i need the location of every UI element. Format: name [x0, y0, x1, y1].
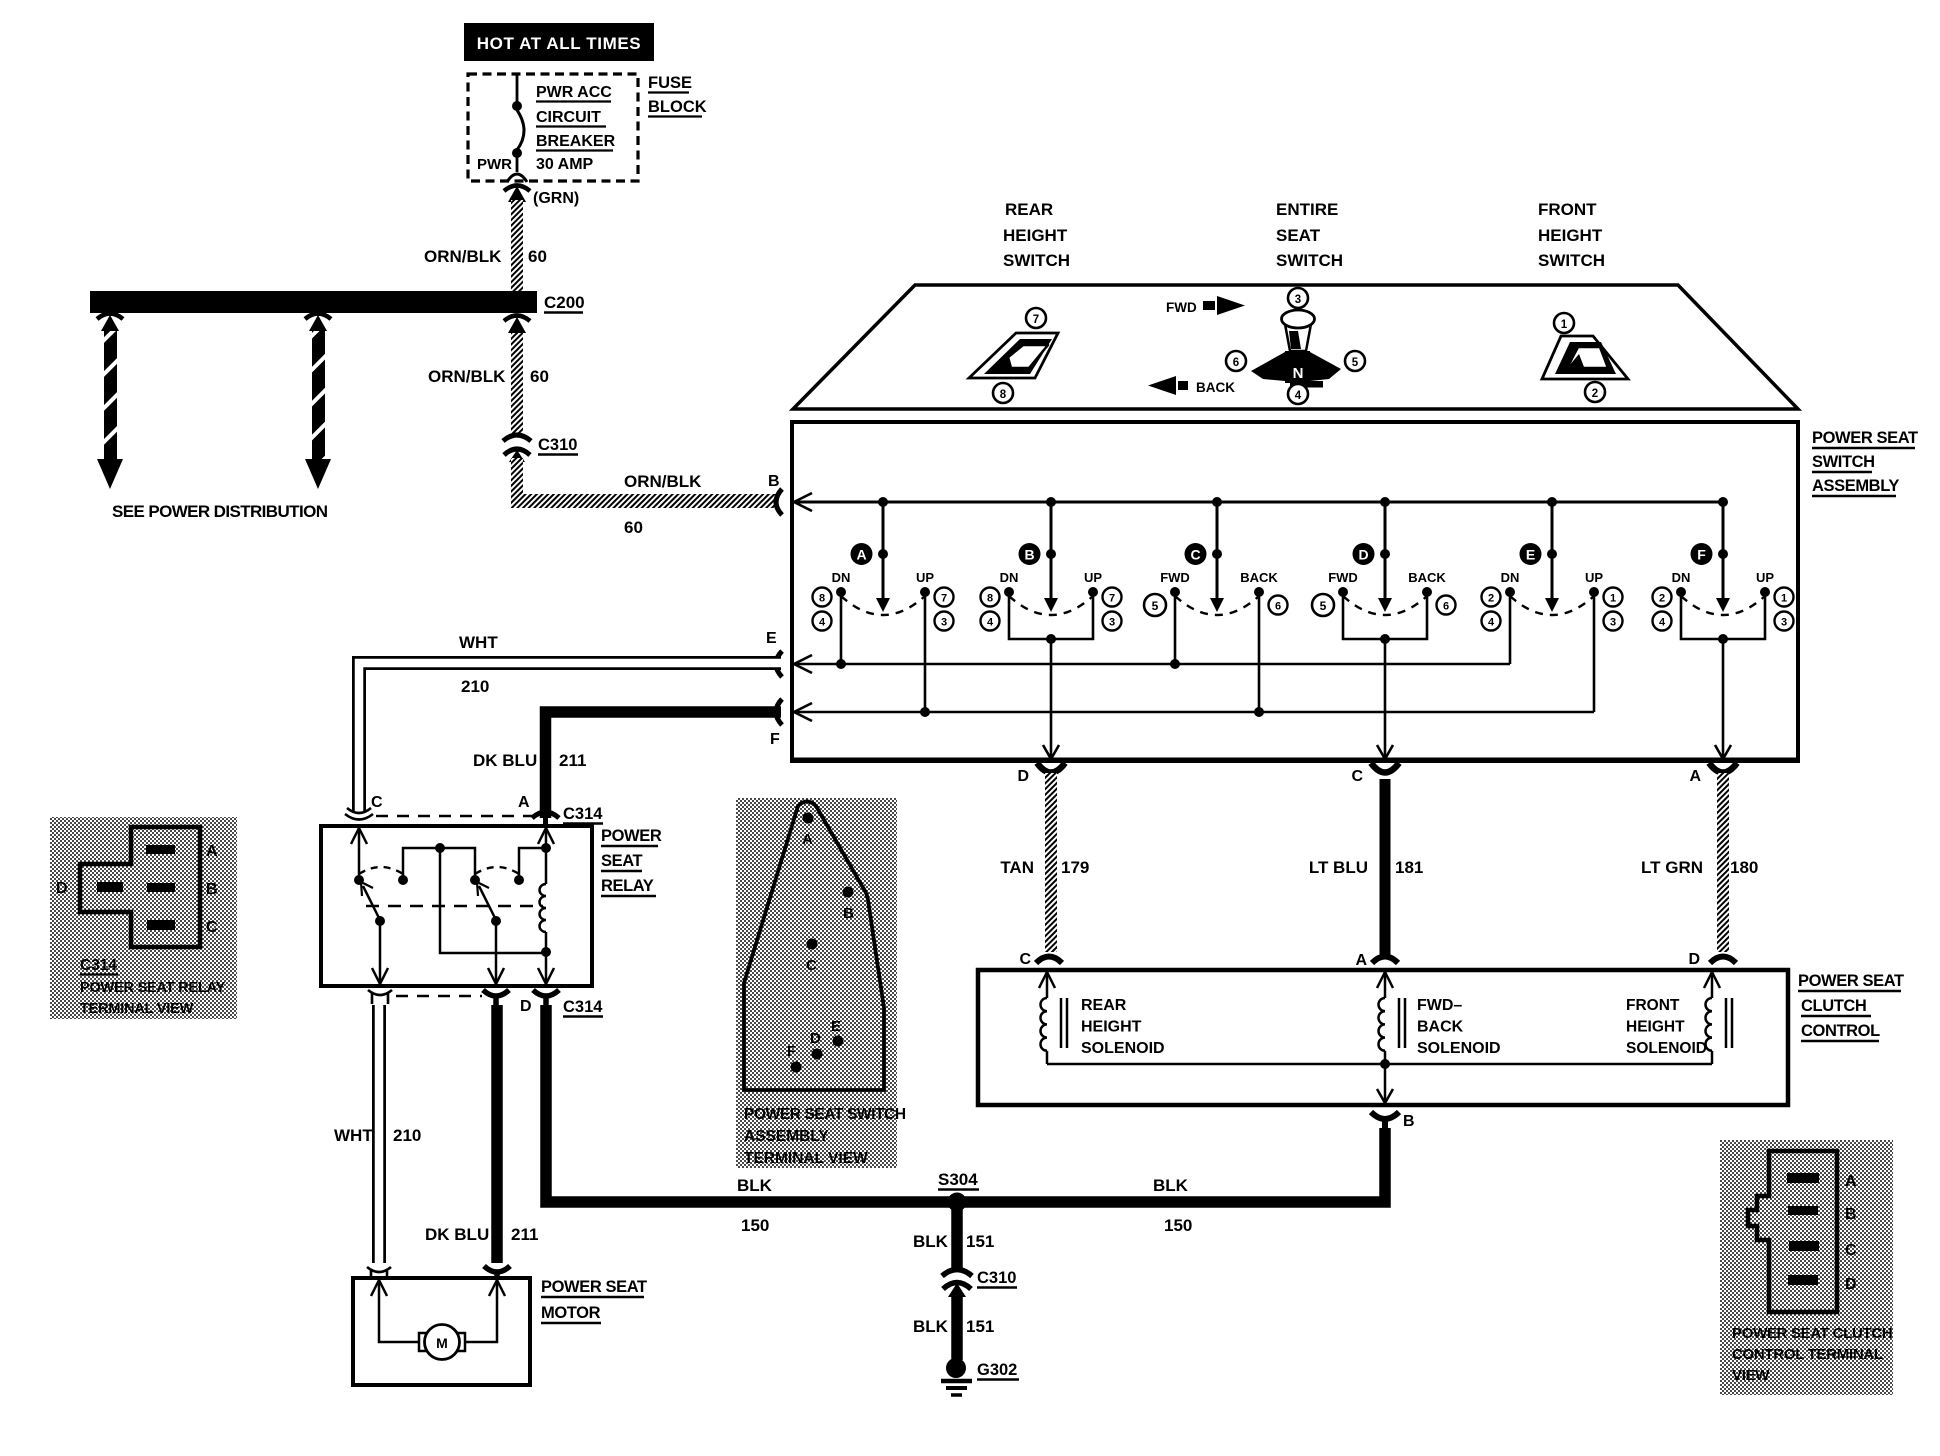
svg-text:MOTOR: MOTOR: [541, 1304, 601, 1322]
svg-text:30 AMP: 30 AMP: [536, 156, 594, 173]
svg-text:POWER: POWER: [601, 827, 662, 845]
wire label ORN/BLK 60: [428, 367, 549, 386]
svg-text:60: 60: [624, 518, 643, 537]
svg-text:C310: C310: [538, 436, 577, 454]
svg-text:CLUTCH: CLUTCH: [1801, 997, 1866, 1015]
front height rocker switch: [1542, 336, 1628, 379]
svg-text:POWER SEAT: POWER SEAT: [1812, 429, 1918, 447]
connector to motor (WHT): [367, 1267, 391, 1279]
svg-text:BACK: BACK: [1408, 570, 1446, 585]
label POWER SEAT MOTOR: [541, 1278, 647, 1323]
svg-text:4: 4: [819, 617, 826, 629]
svg-text:HEIGHT: HEIGHT: [1081, 1019, 1142, 1036]
wire label DK BLU 211: [425, 1225, 538, 1244]
pin 2: [1585, 382, 1605, 402]
svg-text:1: 1: [1781, 593, 1787, 605]
svg-text:C200: C200: [544, 293, 585, 312]
svg-text:POWER SEAT CLUTCH: POWER SEAT CLUTCH: [1732, 1325, 1892, 1342]
svg-text:5: 5: [1352, 357, 1359, 369]
svg-text:CIRCUIT: CIRCUIT: [536, 109, 601, 126]
svg-text:SEE POWER DISTRIBUTION: SEE POWER DISTRIBUTION: [112, 502, 328, 521]
svg-text:C: C: [371, 794, 383, 811]
svg-text:POWER SEAT: POWER SEAT: [541, 1278, 647, 1296]
svg-text:8: 8: [819, 593, 825, 605]
switch section F: [1653, 497, 1794, 759]
svg-text:WHT: WHT: [459, 633, 498, 652]
C314 relay terminal view: [50, 817, 237, 1019]
svg-text:BLK: BLK: [1153, 1176, 1189, 1195]
svg-text:HOT AT ALL TIMES: HOT AT ALL TIMES: [477, 34, 641, 53]
label FUSE BLOCK: [648, 74, 707, 117]
svg-text:A: A: [518, 794, 530, 811]
svg-text:TERMINAL VIEW: TERMINAL VIEW: [744, 1150, 868, 1167]
svg-text:CONTROL TERMINAL: CONTROL TERMINAL: [1732, 1346, 1883, 1363]
pin 6: [1226, 351, 1246, 371]
svg-text:M: M: [436, 1335, 448, 1351]
splice bus C200: [90, 291, 537, 313]
svg-text:60: 60: [530, 367, 549, 386]
svg-text:7: 7: [941, 593, 947, 605]
switch section B: [981, 497, 1122, 759]
svg-text:3: 3: [941, 617, 947, 629]
svg-text:BLK: BLK: [913, 1232, 949, 1251]
svg-text:FWD: FWD: [1160, 570, 1190, 585]
connector label C200: [544, 293, 585, 313]
svg-text:FWD: FWD: [1328, 570, 1358, 585]
relay terminal C lead: [351, 828, 367, 879]
entire seat joystick: [1251, 310, 1341, 388]
connector C314 (relay top): [345, 794, 603, 824]
svg-text:151: 151: [966, 1317, 994, 1336]
fwd-back solenoid: [1377, 972, 1501, 1064]
terminal C connector: [1351, 763, 1399, 785]
wire label ORN/BLK 60: [624, 472, 702, 537]
svg-text:7: 7: [1033, 314, 1039, 326]
svg-text:DN: DN: [832, 570, 851, 585]
svg-text:211: 211: [511, 1225, 538, 1244]
pin 8: [993, 383, 1013, 403]
svg-text:C314: C314: [563, 998, 603, 1016]
wire ORN/BLK 60 (C310 to switch assembly B): [511, 458, 777, 508]
wire to power distribution (left drop): [97, 314, 123, 490]
svg-text:210: 210: [393, 1126, 421, 1145]
svg-text:150: 150: [741, 1216, 769, 1235]
svg-text:WHT: WHT: [334, 1126, 373, 1145]
relay terminal A lead and coil: [538, 828, 554, 957]
relay switch 2: [470, 867, 524, 926]
svg-text:UP: UP: [1585, 570, 1603, 585]
svg-text:D: D: [56, 880, 68, 897]
svg-text:C: C: [1845, 1242, 1857, 1259]
switch panel (3D face): [793, 285, 1798, 409]
svg-text:BLOCK: BLOCK: [648, 98, 707, 116]
svg-text:C: C: [1351, 768, 1363, 785]
power seat motor box: [353, 1278, 530, 1385]
svg-text:6: 6: [1443, 601, 1449, 613]
wire to power distribution (middle drop): [305, 314, 331, 490]
svg-text:BACK: BACK: [1196, 380, 1235, 395]
svg-text:D: D: [520, 998, 532, 1015]
splice S304: [938, 1170, 979, 1212]
svg-text:FRONT: FRONT: [1538, 200, 1597, 219]
svg-text:181: 181: [1395, 858, 1423, 877]
rear height rocker switch: [969, 333, 1058, 378]
svg-text:C314: C314: [563, 805, 603, 823]
svg-text:SWITCH: SWITCH: [1538, 251, 1605, 270]
ground G302: [941, 1358, 1019, 1395]
wire BLK 151 (C310 to G302): [951, 1293, 963, 1360]
svg-text:G302: G302: [977, 1361, 1017, 1379]
wire BLK 150 (relay D to S304 to clutch B): [546, 1005, 1385, 1202]
connector C310 (ground leg): [942, 1269, 1017, 1297]
svg-text:HEIGHT: HEIGHT: [1538, 226, 1603, 245]
svg-text:C: C: [1190, 547, 1200, 563]
svg-text:F: F: [1697, 547, 1706, 563]
svg-text:POWER SEAT SWITCH: POWER SEAT SWITCH: [744, 1106, 906, 1123]
wire DK BLU 211 (relay to motor): [491, 1005, 503, 1263]
terminal F connector: [770, 699, 782, 748]
svg-text:N: N: [1293, 365, 1304, 382]
svg-text:E: E: [766, 630, 777, 647]
svg-text:UP: UP: [1756, 570, 1774, 585]
svg-text:D: D: [810, 1030, 821, 1047]
svg-text:DN: DN: [1672, 570, 1691, 585]
svg-text:C314: C314: [80, 957, 117, 974]
svg-text:150: 150: [1164, 1216, 1192, 1235]
svg-text:E: E: [831, 1018, 841, 1035]
svg-text:ORN/BLK: ORN/BLK: [428, 367, 506, 386]
svg-text:C310: C310: [977, 1269, 1016, 1287]
svg-text:B: B: [843, 905, 854, 922]
wire label ORN/BLK 60: [424, 247, 547, 266]
svg-text:ENTIRE: ENTIRE: [1276, 200, 1338, 219]
relay output leads: [372, 921, 554, 984]
svg-text:A: A: [1689, 768, 1701, 785]
svg-text:FUSE: FUSE: [648, 74, 692, 92]
motor M: [371, 1280, 505, 1360]
svg-text:B: B: [1024, 547, 1034, 563]
svg-text:ASSEMBLY: ASSEMBLY: [1812, 477, 1899, 495]
wire label WHT 210: [334, 1126, 421, 1145]
svg-text:PWR ACC: PWR ACC: [536, 84, 612, 101]
svg-text:LT GRN: LT GRN: [1641, 858, 1703, 877]
label ENTIRE SEAT SWITCH: [1276, 200, 1343, 270]
svg-text:5: 5: [1152, 599, 1159, 613]
svg-text:D: D: [1017, 768, 1029, 785]
svg-text:S304: S304: [938, 1170, 978, 1189]
svg-text:3: 3: [1295, 294, 1301, 306]
svg-text:SEAT: SEAT: [1276, 226, 1321, 245]
connector C314 (relay bottom): [368, 990, 603, 1017]
svg-text:SOLENOID: SOLENOID: [1081, 1040, 1165, 1057]
value label PWR ACC CIRCUIT BREAKER 30 AMP: [536, 84, 616, 173]
svg-text:C: C: [206, 919, 218, 936]
svg-text:UP: UP: [1084, 570, 1102, 585]
pin 4: [1288, 384, 1308, 404]
power seat relay box: [321, 826, 592, 986]
svg-text:HEIGHT: HEIGHT: [1003, 226, 1068, 245]
svg-text:A: A: [1845, 1173, 1857, 1190]
fuse block dashed box: [468, 74, 638, 181]
wire label WHT 210: [459, 633, 498, 696]
pin 7: [1026, 308, 1046, 328]
power seat clutch control terminal view: [1720, 1140, 1893, 1395]
svg-text:SOLENOID: SOLENOID: [1417, 1040, 1501, 1057]
svg-text:SWITCH: SWITCH: [1276, 251, 1343, 270]
svg-text:DN: DN: [1000, 570, 1019, 585]
svg-text:D: D: [1688, 951, 1700, 968]
pin 5: [1345, 351, 1365, 371]
svg-text:A: A: [802, 831, 813, 848]
svg-text:REAR: REAR: [1081, 997, 1127, 1014]
label POWER SEAT SWITCH ASSEMBLY: [1812, 429, 1918, 496]
svg-text:DK BLU: DK BLU: [425, 1225, 489, 1244]
wire LT GRN 180: [1717, 773, 1729, 952]
svg-text:6: 6: [1233, 357, 1239, 369]
svg-text:B: B: [206, 881, 218, 898]
label HOT AT ALL TIMES: [464, 23, 654, 61]
svg-text:B: B: [1403, 1113, 1415, 1130]
svg-text:TERMINAL VIEW: TERMINAL VIEW: [80, 1001, 194, 1017]
rear height solenoid: [1039, 972, 1165, 1064]
svg-text:LT BLU: LT BLU: [1309, 858, 1368, 877]
svg-text:A: A: [206, 843, 218, 860]
svg-text:HEIGHT: HEIGHT: [1626, 1019, 1685, 1036]
svg-text:B: B: [1845, 1206, 1857, 1223]
switch section D: [1312, 497, 1456, 759]
svg-text:VIEW: VIEW: [1732, 1367, 1770, 1384]
svg-text:(GRN): (GRN): [533, 190, 579, 207]
svg-text:ASSEMBLY: ASSEMBLY: [744, 1128, 829, 1145]
svg-text:60: 60: [528, 247, 547, 266]
svg-text:C: C: [806, 957, 817, 974]
label BACK arrow: [1148, 376, 1235, 395]
relay switch 1: [354, 867, 408, 926]
svg-text:F: F: [787, 1043, 796, 1060]
svg-text:E: E: [1526, 547, 1535, 563]
svg-text:BLK: BLK: [913, 1317, 949, 1336]
svg-text:BACK: BACK: [1240, 570, 1278, 585]
mechanical link (dashed): [366, 905, 543, 908]
circuit breaker PWR ACC 30 AMP: [507, 75, 527, 182]
label POWER SEAT CLUTCH CONTROL: [1798, 972, 1904, 1041]
svg-text:1: 1: [1561, 319, 1568, 331]
svg-text:A: A: [1355, 952, 1367, 969]
svg-text:8: 8: [987, 593, 993, 605]
wire solenoid common bus: [1047, 1059, 1712, 1103]
connector D (clutch): [1688, 951, 1736, 968]
svg-text:BACK: BACK: [1417, 1019, 1464, 1036]
terminal E connector: [766, 630, 782, 677]
wire WHT 210 (switch E to relay C): [359, 663, 781, 813]
connector C310: [503, 435, 531, 462]
svg-text:2: 2: [1659, 593, 1665, 605]
svg-text:179: 179: [1061, 858, 1089, 877]
svg-text:8: 8: [1000, 389, 1007, 401]
power seat switch assembly terminal view: [736, 798, 906, 1168]
svg-text:180: 180: [1730, 858, 1758, 877]
wire WHT 210 (relay to motor): [372, 1003, 386, 1263]
svg-text:4: 4: [987, 617, 994, 629]
front height solenoid: [1626, 972, 1732, 1064]
svg-text:3: 3: [1781, 617, 1787, 629]
svg-text:ORN/BLK: ORN/BLK: [424, 247, 502, 266]
svg-text:151: 151: [966, 1232, 994, 1251]
connector label C310: [538, 436, 578, 455]
wire label DK BLU 211: [473, 751, 586, 770]
svg-text:5: 5: [1320, 599, 1327, 613]
svg-text:DK BLU: DK BLU: [473, 751, 537, 770]
wire sw2 NC to coil feed: [519, 843, 551, 880]
wire ORN/BLK 60 (C200 to C310): [504, 316, 530, 434]
label FRONT HEIGHT SWITCH: [1538, 200, 1605, 270]
svg-text:SEAT: SEAT: [601, 852, 643, 870]
wire LT BLU 181: [1380, 779, 1391, 955]
svg-text:TAN: TAN: [1000, 858, 1034, 877]
svg-text:4: 4: [1488, 617, 1495, 629]
svg-text:2: 2: [1488, 593, 1494, 605]
svg-text:FWD: FWD: [1166, 300, 1197, 315]
wire BLK 151 (S304 to C310): [951, 1202, 963, 1268]
connector arrow into breaker: [504, 186, 530, 203]
svg-text:PWR: PWR: [477, 156, 512, 173]
terminal A connector: [1689, 763, 1737, 785]
svg-text:ORN/BLK: ORN/BLK: [624, 472, 702, 491]
wire TAN 179: [1045, 773, 1057, 952]
wire internal supply bus: [794, 493, 1723, 511]
wire ORN/BLK 60 (breaker to C200): [511, 200, 523, 292]
svg-text:BREAKER: BREAKER: [536, 133, 616, 150]
wire crossover (sw1 NC to sw2 feed): [403, 843, 546, 953]
svg-text:DN: DN: [1501, 570, 1520, 585]
power seat clutch control box: [978, 970, 1788, 1105]
svg-text:3: 3: [1109, 617, 1115, 629]
switch section A: [813, 497, 954, 717]
svg-text:CONTROL: CONTROL: [1801, 1022, 1880, 1040]
connector C (clutch): [1019, 951, 1062, 968]
connector A (clutch): [1355, 952, 1398, 969]
switch section E: [1482, 497, 1623, 712]
svg-text:C: C: [1019, 951, 1031, 968]
label FWD arrow: [1166, 296, 1245, 315]
terminal B connector into assembly: [768, 473, 782, 515]
svg-text:SWITCH: SWITCH: [1003, 251, 1070, 270]
svg-text:SWITCH: SWITCH: [1812, 453, 1875, 471]
svg-text:210: 210: [461, 677, 489, 696]
pin 1: [1554, 313, 1574, 333]
pin 3: [1288, 288, 1308, 308]
svg-text:SOLENOID: SOLENOID: [1626, 1040, 1707, 1057]
svg-text:4: 4: [1659, 617, 1666, 629]
svg-text:3: 3: [1610, 617, 1616, 629]
svg-text:F: F: [770, 731, 780, 748]
svg-text:REAR: REAR: [1005, 200, 1053, 219]
svg-text:RELAY: RELAY: [601, 877, 654, 895]
svg-text:4: 4: [1295, 390, 1302, 402]
connector to motor (DK BLU): [484, 1266, 510, 1280]
svg-text:B: B: [768, 473, 780, 490]
svg-text:FWD–: FWD–: [1417, 997, 1462, 1014]
svg-text:2: 2: [1592, 388, 1598, 400]
svg-text:1: 1: [1610, 593, 1616, 605]
svg-text:POWER SEAT RELAY: POWER SEAT RELAY: [80, 980, 226, 996]
svg-text:D: D: [1358, 547, 1368, 563]
power seat switch assembly box: [792, 422, 1798, 761]
svg-text:D: D: [1845, 1276, 1857, 1293]
svg-text:7: 7: [1109, 593, 1115, 605]
svg-text:FRONT: FRONT: [1626, 997, 1680, 1014]
wire bus to terminal E: [794, 655, 1510, 673]
svg-text:211: 211: [559, 751, 586, 770]
label REAR HEIGHT SWITCH: [1003, 200, 1070, 270]
svg-text:BLK: BLK: [737, 1176, 773, 1195]
wire DK BLU 211 (switch F to relay A): [546, 712, 782, 818]
svg-text:6: 6: [1275, 601, 1281, 613]
switch section C: [1144, 497, 1288, 717]
terminal B connector (clutch bottom): [1371, 1112, 1415, 1130]
terminal D connector: [1017, 763, 1065, 785]
svg-text:A: A: [856, 547, 866, 563]
label POWER SEAT RELAY: [601, 827, 662, 896]
svg-text:POWER SEAT: POWER SEAT: [1798, 972, 1904, 990]
svg-text:UP: UP: [916, 570, 934, 585]
wire bus to terminal F: [794, 703, 1594, 721]
